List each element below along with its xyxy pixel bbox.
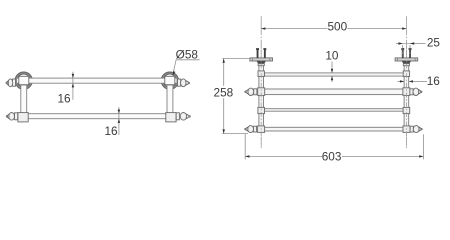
dimension 16 (post dia) with leader (398, 74, 441, 88)
svg-text:258: 258 (214, 86, 234, 100)
rail D collar on left post (258, 126, 265, 132)
left plate neck (257, 61, 265, 64)
right post tube (404, 66, 409, 127)
right neck collar (403, 64, 409, 66)
bottom-left finial (6, 113, 18, 121)
rail B left finial (245, 88, 257, 95)
dimension 16 (bottom bar dia, front view) (104, 107, 120, 138)
rail D left finial (245, 126, 257, 133)
svg-text:500: 500 (327, 20, 347, 34)
svg-text:Ø58: Ø58 (176, 47, 199, 61)
centerline overlays over posts (261, 44, 406, 148)
rail A collar on left post (258, 71, 264, 77)
rail C (rear shelf rail) (264, 109, 403, 112)
bottom-left collar block (18, 113, 28, 122)
svg-text:25: 25 (427, 35, 441, 49)
right ring ornament (161, 72, 178, 89)
label Ø58 with leader (173, 47, 200, 75)
front right post (167, 85, 173, 113)
bottom-right collar block (166, 113, 176, 122)
svg-text:16: 16 (427, 74, 441, 88)
front left post (21, 85, 27, 113)
right wall plate (395, 58, 418, 61)
centerline left post (260, 16, 262, 148)
top-right finial (178, 79, 190, 87)
svg-text:10: 10 (325, 49, 339, 63)
dimension 25 (screw centres) (396, 35, 440, 56)
rail D right finial (410, 126, 422, 133)
rail B collar on right post (403, 88, 410, 96)
dimension 500 (261, 20, 406, 34)
rail B right finial (410, 88, 422, 95)
left wall plate (250, 58, 273, 61)
left ring ornament (15, 72, 32, 89)
svg-text:603: 603 (322, 150, 342, 164)
right plate neck (402, 61, 410, 64)
left neck collar (258, 64, 264, 66)
dimension 258 (projection) (214, 59, 251, 134)
rail D collar on right post (403, 126, 410, 132)
left holder block (19, 76, 29, 84)
centerline right post (405, 16, 407, 148)
dimension 603 (overall) (245, 134, 423, 164)
bottom-right finial (176, 113, 190, 121)
rail A collar on right post (403, 71, 409, 77)
top-left finial (6, 79, 16, 87)
dimension 16 (top rail dia, front view) (57, 72, 74, 106)
rail B collar on left post (258, 88, 265, 96)
rail B towel bar (264, 89, 403, 95)
right holder block (165, 76, 175, 84)
left screws (256, 48, 266, 58)
front top rail (shelf seen edge-on) (17, 78, 178, 83)
svg-text:16: 16 (104, 124, 118, 138)
rail A (10mm shelf rail) (264, 73, 403, 76)
front bottom towel bar (28, 114, 167, 119)
dimension 10 (rail A) (325, 49, 339, 82)
rail C collar on left post (258, 107, 265, 113)
svg-text:16: 16 (57, 92, 71, 106)
rail D front rail (264, 127, 403, 131)
right screws (401, 48, 411, 58)
left post tube (259, 66, 264, 127)
rail C collar on right post (403, 107, 410, 113)
